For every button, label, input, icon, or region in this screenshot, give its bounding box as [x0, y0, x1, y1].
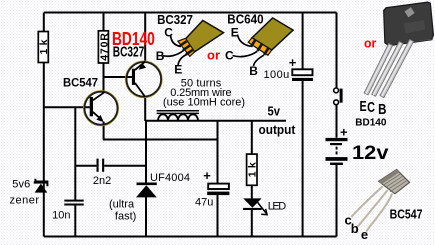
- svg-text:C: C: [367, 100, 375, 116]
- svg-text:LED: LED: [268, 200, 286, 212]
- svg-text:C: C: [225, 48, 234, 62]
- svg-text:fast): fast): [115, 211, 136, 223]
- svg-text:E: E: [231, 25, 239, 39]
- svg-text:or: or: [207, 48, 220, 63]
- svg-text:output: output: [259, 122, 296, 137]
- svg-text:12v: 12v: [352, 142, 389, 164]
- svg-text:BC547: BC547: [390, 206, 423, 221]
- svg-text:E: E: [360, 99, 367, 115]
- svg-text:(ultra: (ultra: [109, 199, 135, 211]
- svg-text:B: B: [378, 102, 386, 118]
- svg-text:C: C: [164, 25, 173, 39]
- svg-text:100u: 100u: [264, 69, 290, 81]
- svg-text:(use 10mH core): (use 10mH core): [163, 96, 245, 108]
- svg-text:e: e: [361, 227, 368, 242]
- svg-text:B: B: [156, 49, 165, 63]
- svg-text:470R: 470R: [98, 33, 110, 61]
- svg-text:BC327: BC327: [157, 13, 193, 27]
- svg-text:E: E: [174, 63, 182, 77]
- svg-text:+: +: [289, 55, 297, 70]
- svg-text:10n: 10n: [52, 209, 70, 221]
- svg-text:zener: zener: [10, 194, 40, 206]
- svg-text:BC547: BC547: [63, 77, 98, 89]
- svg-text:BD140: BD140: [355, 117, 387, 128]
- svg-text:or: or: [364, 35, 376, 50]
- svg-text:BD140: BD140: [112, 28, 155, 49]
- svg-text:+: +: [340, 124, 348, 139]
- svg-text:47u: 47u: [195, 197, 213, 209]
- svg-text:5v: 5v: [268, 104, 281, 119]
- svg-text:+: +: [203, 168, 211, 183]
- svg-text:b: b: [351, 221, 359, 236]
- svg-text:2n2: 2n2: [93, 175, 111, 187]
- svg-text:5v6: 5v6: [12, 178, 30, 190]
- svg-text:B: B: [249, 64, 258, 78]
- svg-text:UF4004: UF4004: [150, 172, 190, 184]
